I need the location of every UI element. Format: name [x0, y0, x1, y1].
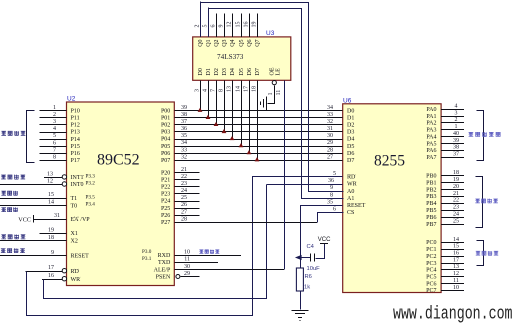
svg-text:PA0: PA0	[426, 107, 436, 113]
svg-text:3: 3	[195, 89, 201, 92]
svg-text:PC2: PC2	[426, 254, 436, 260]
svg-text:8: 8	[219, 89, 225, 92]
svg-text:CS: CS	[347, 210, 354, 216]
wire 8255 PC5 stub	[441, 276, 464, 278]
wire RD net rail	[27, 177, 253, 316]
svg-text:D4: D4	[347, 137, 354, 143]
wire 8255 PA4 stub	[441, 136, 464, 138]
svg-text:PB0: PB0	[426, 174, 436, 180]
wire 8255 PC1 stub	[441, 249, 464, 251]
svg-text:Q2: Q2	[214, 39, 220, 46]
wire net Q1 to 8255 A1 wrap	[209, 9, 344, 199]
svg-text:P02: P02	[161, 123, 170, 129]
wire P05 bus line 89C52 to 8255 D5	[174, 146, 342, 148]
svg-text:RD: RD	[71, 269, 80, 275]
svg-text:U6: U6	[343, 97, 352, 104]
svg-text:D3: D3	[222, 68, 228, 75]
wire P07 bus line 89C52 to 8255 D7	[174, 160, 342, 162]
svg-text:2: 2	[455, 117, 458, 123]
junction D2/P02	[214, 122, 219, 126]
svg-text:P3.0: P3.0	[142, 249, 152, 255]
wire 74LS373 D6 drop to P06	[249, 80, 251, 152]
svg-text:8255: 8255	[374, 153, 405, 170]
svg-text:P27: P27	[161, 220, 170, 226]
bracket PA group	[477, 111, 484, 161]
capacitor C4 plates	[310, 253, 312, 261]
wire 74LS373 Q0 pin2 stub up	[200, 2, 202, 37]
svg-text:D7: D7	[255, 68, 261, 75]
wire 89C52 pin19 X1 stub	[39, 233, 66, 235]
wire node to C4	[300, 257, 311, 259]
svg-text:11: 11	[276, 90, 282, 96]
svg-text:18: 18	[453, 170, 459, 176]
wire 89C52 pin29 PSEN stub	[181, 276, 200, 278]
wire P01 bus line 89C52 to 8255 D1	[174, 117, 342, 119]
wire 74LS373 D7 drop to P07	[257, 80, 259, 159]
svg-text:36: 36	[328, 178, 334, 184]
ground (74LS373 OE, sideways)	[266, 96, 268, 110]
svg-text:PC4: PC4	[426, 268, 436, 274]
wire 8255 PB6 stub	[441, 217, 464, 219]
svg-text:30: 30	[184, 264, 190, 270]
svg-text:16: 16	[48, 273, 54, 279]
svg-text:16: 16	[453, 251, 459, 257]
svg-text:74LS373: 74LS373	[217, 53, 244, 61]
svg-text:P20: P20	[161, 170, 170, 176]
svg-text:38: 38	[453, 145, 459, 151]
wire 89C52 pin11 TXD stub	[174, 262, 218, 264]
svg-text:22: 22	[181, 174, 187, 180]
svg-text:Q7: Q7	[255, 39, 261, 46]
svg-text:T1: T1	[71, 196, 78, 202]
junction D6/P06	[247, 150, 252, 154]
junction D1/P01	[206, 115, 211, 119]
svg-text:21: 21	[181, 167, 187, 173]
svg-text:X1: X1	[71, 231, 78, 237]
svg-text:P11: P11	[71, 116, 80, 122]
svg-text:PB3: PB3	[426, 194, 436, 200]
wire 89C52 pin 4 P13 stub	[40, 132, 67, 134]
svg-text:7: 7	[53, 147, 56, 153]
wire 89C52 pin 3 P12 stub	[40, 124, 67, 126]
svg-text:31: 31	[54, 213, 60, 219]
wire 8255 PC6 stub	[441, 283, 464, 285]
wire 89C52 P24 stub	[174, 201, 199, 203]
svg-text:30: 30	[327, 133, 333, 139]
svg-text:9: 9	[219, 25, 225, 28]
svg-text:D3: D3	[347, 130, 354, 136]
svg-text:25: 25	[181, 195, 187, 201]
svg-text:25: 25	[453, 218, 459, 224]
svg-text:PA6: PA6	[426, 148, 436, 154]
svg-text:Q4: Q4	[230, 39, 236, 46]
wire net Q0 to 8255 A0 wrap	[201, 3, 344, 192]
svg-text:PB5: PB5	[426, 208, 436, 214]
wire 89C52 pin16 WR stub	[42, 279, 62, 281]
svg-text:U3: U3	[266, 30, 275, 37]
bracket PC group	[477, 241, 484, 266]
svg-text:PC5: PC5	[426, 275, 436, 281]
svg-text:33: 33	[327, 112, 333, 118]
svg-text:10uF: 10uF	[307, 266, 321, 272]
svg-text:Q1: Q1	[206, 39, 212, 46]
svg-text:EA: EA	[71, 217, 80, 223]
svg-text:18: 18	[48, 235, 54, 241]
svg-text:20: 20	[453, 184, 459, 190]
bracket status-input group	[27, 111, 35, 163]
wire 89C52 pin14 T0 net	[0, 205, 67, 207]
svg-text:D0: D0	[198, 68, 204, 75]
svg-text:D2: D2	[214, 68, 220, 75]
svg-text:14: 14	[236, 86, 242, 92]
svg-text:18: 18	[252, 86, 258, 92]
wire 8255 PB7 stub	[441, 224, 464, 226]
wire P04 bus line 89C52 to 8255 D4	[174, 139, 342, 141]
svg-text:Q6: Q6	[247, 39, 253, 46]
svg-text:R6: R6	[305, 274, 312, 280]
wire 74LS373 Q1 pin5 stub up	[208, 7, 210, 37]
svg-text:40: 40	[453, 131, 459, 137]
label ciye-xinhao (sensor signal)	[1, 175, 6, 180]
bubble WR	[62, 277, 66, 281]
resistor R6 body	[296, 268, 303, 291]
wire node to R6	[300, 258, 302, 269]
wire 8255 CS jog to P27	[318, 213, 344, 223]
svg-text:19: 19	[453, 177, 459, 183]
wire 8255 PA2 stub	[441, 122, 464, 124]
svg-text:13: 13	[47, 171, 53, 177]
svg-text:19: 19	[252, 22, 258, 28]
svg-text:19: 19	[48, 227, 54, 233]
svg-text:T0: T0	[71, 203, 78, 209]
wire 89C52 pin 6 P15 stub	[40, 146, 67, 148]
svg-text:D7: D7	[347, 158, 354, 164]
junction D7/P07	[255, 157, 260, 161]
svg-text:P15: P15	[71, 144, 80, 150]
wire P00 bus line 89C52 to 8255 D0	[174, 110, 342, 112]
wire 74LS373 Q6 pin16 stub up	[249, 14, 251, 37]
svg-text:34: 34	[181, 140, 187, 146]
wire 8255 PC2 stub	[441, 256, 464, 258]
wire 8255 PC0 stub	[441, 242, 464, 244]
wire 8255 PB3 stub	[441, 196, 464, 198]
svg-text:PA2: PA2	[426, 121, 436, 127]
svg-text:WR: WR	[71, 277, 81, 283]
svg-text:P23: P23	[161, 192, 170, 198]
bracket PB group	[476, 177, 483, 228]
wire 74LS373 Q4 pin12 stub up	[232, 14, 234, 37]
svg-text:INT0: INT0	[71, 182, 84, 188]
wire WR row to 8255 pin36	[266, 184, 342, 186]
wire 74LS373 Q2 pin6 stub up	[216, 14, 218, 37]
svg-text:P3.2: P3.2	[86, 181, 96, 187]
svg-text:D1: D1	[347, 116, 354, 122]
wire 8255 PA6 stub	[441, 150, 464, 152]
svg-text:/VP: /VP	[80, 217, 90, 223]
svg-text:24: 24	[181, 188, 187, 194]
svg-text:PC7: PC7	[426, 288, 436, 294]
svg-text:15: 15	[236, 22, 242, 28]
wire 8255 PC4 stub	[441, 269, 464, 271]
wire 89C52 pin15 T1 net	[0, 198, 67, 200]
svg-text:2: 2	[53, 112, 56, 118]
wire 89C52 pin18 X2 net	[0, 240, 67, 242]
wire LE to ALE vertical	[284, 80, 286, 269]
wire C4 to VCC	[316, 244, 325, 259]
svg-text:16: 16	[244, 22, 250, 28]
wire 8255 PA3 stub	[441, 129, 464, 131]
wire 74LS373 D3 drop to P03	[224, 80, 226, 131]
power VCC bar	[320, 243, 328, 245]
label shangxianwei (upper limit)	[1, 207, 6, 212]
svg-text:29: 29	[327, 140, 333, 146]
svg-text:6: 6	[333, 207, 336, 213]
svg-text:P24: P24	[161, 199, 170, 205]
wire RD row to 8255 pin5	[252, 176, 343, 178]
svg-text:P04: P04	[161, 137, 170, 143]
svg-text:31: 31	[327, 126, 333, 132]
wire 89C52 pin 5 P14 stub	[40, 139, 67, 141]
svg-text:5: 5	[53, 133, 56, 139]
wire 8255 PB1 stub	[441, 182, 464, 184]
svg-text:PA1: PA1	[426, 114, 436, 120]
svg-text:9: 9	[330, 185, 333, 191]
junction D0/P00	[198, 108, 203, 112]
wire 89C52 pin 2 P11 stub	[40, 117, 67, 119]
svg-text:11: 11	[453, 278, 459, 284]
svg-text:P25: P25	[161, 206, 170, 212]
svg-text:23: 23	[453, 205, 459, 211]
wire 8255 PB4 stub	[441, 203, 464, 205]
label zhuangtai-zhishi (status indication)	[475, 199, 479, 203]
svg-text:3: 3	[53, 119, 56, 125]
svg-text:32: 32	[181, 154, 187, 160]
svg-text:29: 29	[184, 271, 190, 277]
bubble PSEN	[176, 275, 180, 279]
svg-text:PB6: PB6	[426, 215, 436, 221]
svg-text:3: 3	[455, 110, 458, 116]
wire 8255 PA1 stub	[441, 116, 464, 118]
svg-text:PA3: PA3	[426, 128, 436, 134]
svg-text:RD: RD	[347, 175, 356, 181]
wire 8255 PC7 stub	[441, 290, 464, 292]
wire 89C52 P22 stub	[174, 186, 199, 188]
svg-text:P12: P12	[71, 123, 80, 129]
junction D3/P03	[222, 129, 227, 133]
svg-text:D5: D5	[239, 68, 245, 75]
svg-text:10: 10	[184, 249, 190, 255]
wire 74LS373 Q3 pin9 stub up	[224, 14, 226, 37]
svg-text:Q3: Q3	[222, 39, 228, 46]
svg-text:P3.1: P3.1	[142, 256, 152, 262]
svg-text:26: 26	[181, 202, 187, 208]
wire 89C52 P20 stub	[174, 172, 199, 174]
svg-text:34: 34	[327, 105, 333, 111]
svg-text:LE: LE	[275, 68, 281, 76]
svg-text:17: 17	[244, 86, 250, 92]
IC U6 8255 body	[343, 104, 441, 293]
svg-text:P01: P01	[161, 116, 170, 122]
wire 74LS373 D0 drop to P00	[200, 80, 202, 110]
wire 89C52 pin12 INT0 net	[0, 184, 62, 186]
svg-text:A1: A1	[347, 196, 354, 202]
svg-text:23: 23	[181, 181, 187, 187]
wire 74LS373 Q5 pin15 stub up	[241, 14, 243, 37]
svg-text:27: 27	[181, 209, 187, 215]
svg-text:8: 8	[330, 192, 333, 198]
svg-text:Q5: Q5	[239, 39, 245, 46]
svg-text:35: 35	[327, 200, 333, 206]
svg-text:P05: P05	[161, 144, 170, 150]
svg-text:RESET: RESET	[71, 254, 90, 260]
svg-text:TXD: TXD	[158, 260, 171, 266]
bubble INT1	[62, 175, 66, 179]
wire P06 bus line 89C52 to 8255 D6	[174, 153, 342, 155]
svg-text:1: 1	[53, 105, 56, 111]
wire 89C52 pin9 RESET net	[0, 255, 67, 257]
junction D4/P04	[230, 136, 235, 140]
label shizhong-xinhao (clock signal)	[1, 234, 6, 239]
svg-text:13: 13	[227, 86, 233, 92]
bubble RD	[62, 269, 66, 273]
svg-text:D6: D6	[247, 68, 253, 75]
svg-text:P10: P10	[71, 109, 80, 115]
svg-text:1k: 1k	[304, 285, 310, 291]
VCC tie bar at EA	[33, 215, 35, 223]
wire 89C52 pin 8 P17 stub	[40, 160, 67, 162]
IC U2 89C52 body	[67, 102, 175, 286]
svg-text:C4: C4	[307, 244, 315, 250]
svg-text:4: 4	[455, 104, 458, 110]
svg-text:PC3: PC3	[426, 261, 436, 267]
svg-text:P00: P00	[161, 109, 170, 115]
svg-text:D0: D0	[347, 109, 354, 115]
wire 89C52 pin30 ALE net	[174, 269, 283, 271]
svg-text:P3.4: P3.4	[86, 202, 96, 208]
svg-text:12: 12	[453, 271, 459, 277]
svg-text:1: 1	[268, 93, 274, 96]
svg-text:P3.5: P3.5	[86, 194, 96, 200]
wire 89C52 pin 7 P16 stub	[40, 153, 67, 155]
svg-text:28: 28	[327, 147, 333, 153]
svg-text:VCC: VCC	[318, 237, 331, 243]
svg-text:P26: P26	[161, 213, 170, 219]
svg-text:36: 36	[181, 126, 187, 132]
wire 89C52 pin31 EA stub	[33, 219, 67, 221]
svg-text:P3.3: P3.3	[86, 174, 96, 180]
svg-text:2: 2	[195, 25, 201, 28]
svg-text:6: 6	[211, 25, 217, 28]
svg-text:22: 22	[453, 198, 459, 204]
svg-text:P14: P14	[71, 137, 80, 143]
svg-text:P13: P13	[71, 130, 80, 136]
wire P27 net to 8255 CS	[174, 222, 317, 224]
wire 89C52 P21 stub	[174, 179, 199, 181]
label dianji-qudong (motor drive)	[476, 251, 480, 255]
wire P03 bus line 89C52 to 8255 D3	[174, 131, 342, 133]
svg-text:14: 14	[48, 200, 54, 206]
svg-text:D6: D6	[347, 151, 354, 157]
svg-text:6: 6	[53, 140, 56, 146]
svg-text:PC6: PC6	[426, 281, 436, 287]
svg-text:5: 5	[203, 25, 209, 28]
wire 89C52 pin10 RXD net	[174, 255, 241, 257]
svg-text:X2: X2	[71, 239, 78, 245]
svg-text:D4: D4	[230, 68, 236, 75]
label yewei-xinhao (level signal)	[199, 250, 203, 254]
svg-text:P03: P03	[161, 130, 170, 136]
wire 8255 PC3 stub	[441, 263, 464, 265]
svg-text:7: 7	[211, 89, 217, 92]
svg-text:15: 15	[453, 244, 459, 250]
wire 89C52 P23 stub	[174, 193, 199, 195]
wire 8255 RESET row	[300, 205, 342, 207]
svg-text:U2: U2	[67, 96, 76, 103]
svg-text:15: 15	[48, 192, 54, 198]
svg-text:37: 37	[453, 152, 459, 158]
svg-text:PB4: PB4	[426, 201, 436, 207]
wire 8255 RESET to RC node	[300, 205, 302, 258]
svg-text:D2: D2	[347, 123, 354, 129]
svg-text:12: 12	[47, 178, 53, 184]
svg-text:PC1: PC1	[426, 247, 436, 253]
svg-text:A0: A0	[347, 189, 354, 195]
svg-text:12: 12	[227, 22, 233, 28]
wire 8255 PB5 stub	[441, 210, 464, 212]
ground (main)	[291, 310, 308, 312]
label shumaguan-xianshi (digit display)	[469, 132, 474, 137]
svg-text:P22: P22	[161, 185, 170, 191]
svg-text:PB2: PB2	[426, 187, 436, 193]
svg-text:37: 37	[181, 119, 187, 125]
svg-text:PA7: PA7	[426, 155, 436, 161]
svg-text:28: 28	[181, 216, 187, 222]
svg-text:8: 8	[53, 154, 56, 160]
wire R6 to ground	[300, 291, 302, 310]
svg-text:P16: P16	[71, 151, 80, 157]
svg-text:24: 24	[453, 212, 459, 218]
wire 74LS373 D4 drop to P04	[232, 80, 234, 138]
svg-text:RESET: RESET	[347, 203, 366, 209]
wire 89C52 P25 stub	[174, 208, 199, 210]
svg-text:32: 32	[327, 119, 333, 125]
wire WR net rail	[44, 185, 267, 299]
svg-text:39: 39	[453, 138, 459, 144]
svg-text:P07: P07	[161, 158, 170, 164]
label zhuangtai-shuru (status input)	[1, 131, 6, 136]
svg-text:39: 39	[181, 105, 187, 111]
svg-text:Q0: Q0	[198, 39, 204, 46]
svg-text:33: 33	[181, 147, 187, 153]
svg-text:ALE/P: ALE/P	[154, 268, 171, 274]
svg-text:PA4: PA4	[426, 134, 436, 140]
wire OE to ground	[268, 86, 275, 104]
wire 74LS373 D2 drop to P02	[216, 80, 218, 124]
svg-text:1: 1	[455, 124, 458, 130]
junction D5/P05	[239, 143, 244, 147]
svg-text:RXD: RXD	[158, 253, 171, 259]
svg-text:PB1: PB1	[426, 180, 436, 186]
label fuwei-xinhao (reset signal)	[1, 248, 6, 253]
wire 8255 PB2 stub	[441, 189, 464, 191]
wire 74LS373 Q7 pin19 stub up	[257, 14, 259, 37]
svg-text:17: 17	[453, 257, 459, 263]
wire P02 bus line 89C52 to 8255 D2	[174, 124, 342, 126]
wire 8255 PA0 stub	[441, 109, 464, 111]
svg-text:PC0: PC0	[426, 240, 436, 246]
svg-text:P06: P06	[161, 151, 170, 157]
svg-text:4: 4	[203, 89, 209, 92]
